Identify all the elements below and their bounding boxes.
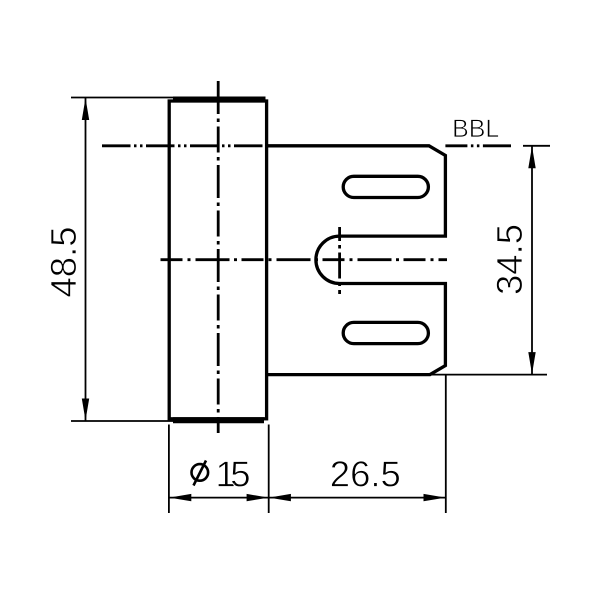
cylinder bottom cap bar [173, 417, 264, 423]
arrow diameter15 right [247, 494, 269, 501]
extension line 48.5 bottom [71, 420, 173, 422]
dimension line 48.5 [85, 98, 87, 422]
dimension line diameter 15 and 26.5 [169, 497, 445, 499]
extension line below cylinder left [168, 425, 170, 514]
cylinder body outline [169, 101, 266, 419]
arrow 48.5 down [82, 399, 89, 421]
extension line 34.5 bottom [430, 374, 547, 376]
arrow 34.5 down [528, 352, 535, 374]
arrow 34.5 up [528, 146, 535, 168]
dimension line 34.5 [531, 146, 533, 375]
diameter symbol circle [192, 464, 209, 481]
centerline horizontal mid axis [161, 258, 448, 261]
svg-text:BBL: BBL [452, 115, 499, 143]
arrow 48.5 up [82, 98, 89, 120]
diameter symbol slash [194, 461, 207, 486]
centerline BBL right segment [445, 144, 511, 147]
svg-text:26.5: 26.5 [330, 454, 401, 495]
slot lower [343, 322, 428, 343]
mounting plate outline with chamfers and U-cutout [267, 146, 446, 375]
slot upper [343, 176, 428, 197]
svg-text:15: 15 [216, 454, 250, 495]
arrow 26.5 right [424, 494, 446, 501]
svg-text:34.5: 34.5 [489, 224, 530, 295]
arrow 26.5 left [269, 494, 291, 501]
extension line 48.5 top [71, 97, 174, 99]
svg-text:48.5: 48.5 [43, 226, 84, 297]
arrow diameter15 left [169, 494, 191, 501]
extension line below plate right [445, 376, 447, 514]
centerline BBL left segment [102, 144, 267, 147]
centerline vertical cylinder axis [217, 81, 220, 433]
centerline vertical U-cutout axis [338, 227, 341, 294]
cylinder top cap bar [173, 97, 266, 103]
extension line 34.5 top [523, 145, 550, 147]
extension line below cylinder right [268, 425, 270, 514]
